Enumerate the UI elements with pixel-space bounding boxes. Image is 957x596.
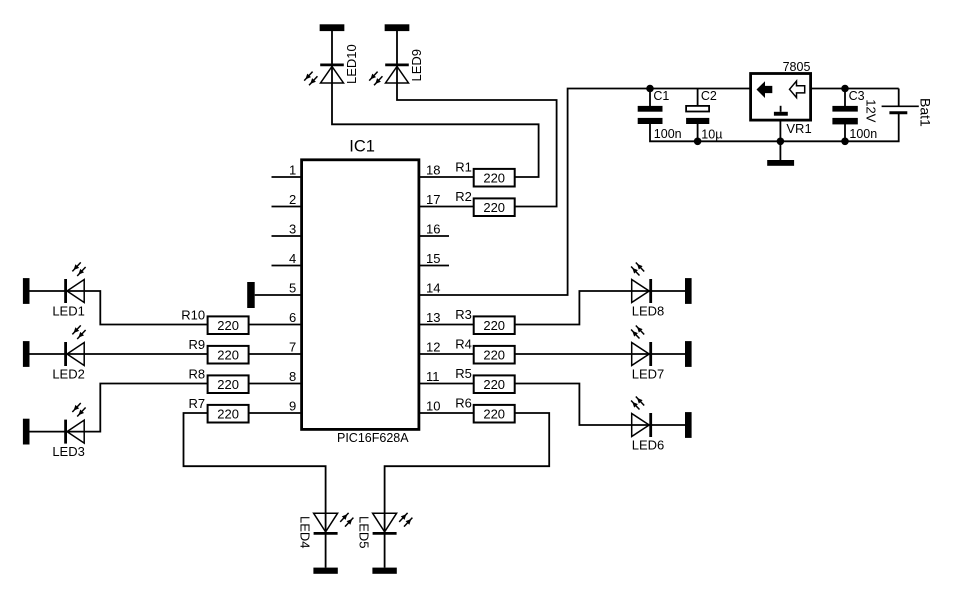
svg-text:R3: R3 (455, 307, 472, 322)
LED LED1 (left-pointing diode) (52, 262, 85, 318)
wire C3 bottom lead (844, 124, 846, 141)
wire pin 7 to resistor (249, 353, 302, 355)
svg-text:14: 14 (426, 281, 440, 296)
svg-text:R10: R10 (181, 308, 205, 323)
svg-text:220: 220 (483, 318, 505, 333)
svg-text:R8: R8 (188, 367, 205, 382)
svg-text:9: 9 (289, 399, 296, 414)
voltage regulator VR1 7805 body (751, 74, 811, 121)
resistor R5 220 (455, 366, 514, 393)
svg-text:13: 13 (426, 310, 440, 325)
svg-text:12: 12 (426, 340, 440, 355)
svg-text:220: 220 (483, 377, 505, 392)
terminal bar LED9 (385, 24, 410, 31)
svg-text:220: 220 (217, 347, 239, 362)
wire pin 10 stub (419, 412, 474, 414)
resistor R1 220 (455, 159, 514, 186)
wire R7 to LED4 (184, 413, 326, 568)
wire pin 9 to resistor (249, 412, 302, 414)
svg-text:2: 2 (289, 192, 296, 207)
wire R6 to LED5 (385, 413, 550, 568)
svg-text:3: 3 (289, 222, 296, 237)
ground symbol (767, 160, 794, 166)
wire pin 2 stub (272, 206, 302, 208)
svg-text:R5: R5 (455, 366, 472, 381)
supply bar terminal at pin 5 (247, 282, 255, 308)
svg-text:PIC16F628A: PIC16F628A (337, 431, 409, 445)
svg-text:LED2: LED2 (52, 367, 85, 382)
svg-text:R7: R7 (188, 396, 205, 411)
IC IC1 PIC16F628A body (302, 160, 419, 430)
wire pin 1 stub (272, 176, 302, 178)
svg-text:220: 220 (217, 406, 239, 421)
wire pin 15 stub (n.c.) (419, 265, 449, 267)
terminal bar LED1 (23, 278, 30, 304)
LED LED3 (left-pointing diode) (52, 403, 85, 459)
terminal bar LED4 (313, 568, 337, 574)
resistor R7 220 (188, 396, 248, 422)
terminal bar LED3 (23, 419, 30, 445)
svg-text:5: 5 (289, 281, 296, 296)
LED LED5 (down-pointing diode) (357, 513, 413, 549)
svg-text:C1: C1 (653, 89, 669, 103)
svg-text:IC1: IC1 (349, 137, 375, 155)
svg-text:VR1: VR1 (786, 121, 811, 136)
wire pin 14 to +5V rail (419, 89, 751, 296)
svg-text:LED1: LED1 (52, 304, 85, 319)
LED LED4 (down-pointing diode) (298, 513, 354, 549)
terminal bar LED7 (685, 341, 692, 367)
resistor R3 220 (455, 307, 514, 334)
terminal bar LED8 (685, 278, 692, 304)
svg-text:100n: 100n (849, 127, 877, 141)
LED LED9 (up-pointing diode) (369, 49, 424, 85)
terminal bar LED5 (372, 568, 396, 574)
wire R9 to LED2 (30, 353, 208, 355)
resistor R6 220 (455, 395, 514, 422)
svg-text:220: 220 (217, 377, 239, 392)
svg-text:LED4: LED4 (298, 516, 313, 549)
svg-text:C2: C2 (701, 89, 717, 103)
svg-text:LED9: LED9 (409, 49, 424, 82)
svg-text:R1: R1 (455, 159, 472, 174)
svg-text:1: 1 (289, 163, 296, 178)
wire bottom rail (650, 113, 899, 142)
svg-text:12V: 12V (864, 99, 879, 122)
wire pin 17 stub (419, 206, 474, 208)
svg-text:18: 18 (426, 163, 440, 178)
svg-text:7805: 7805 (783, 60, 811, 74)
wire R8 to LED3 (30, 384, 208, 432)
svg-text:R6: R6 (455, 395, 472, 410)
svg-text:220: 220 (217, 318, 239, 333)
junction dot C3 at bottom rail (841, 138, 849, 146)
svg-text:6: 6 (289, 310, 296, 325)
wire battery positive drop (898, 89, 900, 106)
svg-text:C3: C3 (849, 89, 865, 103)
terminal bar LED6 (685, 412, 692, 438)
wire pin 18 stub (419, 176, 474, 178)
svg-text:17: 17 (426, 192, 440, 207)
svg-text:220: 220 (483, 200, 505, 215)
svg-text:10µ: 10µ (701, 127, 722, 141)
svg-text:10: 10 (426, 399, 440, 414)
svg-text:R4: R4 (455, 336, 472, 351)
junction dot C1 at +5V rail (646, 85, 654, 93)
svg-text:15: 15 (426, 251, 440, 266)
junction dot VR1 ground at bottom rail (777, 138, 785, 146)
terminal bar LED10 (320, 24, 345, 31)
svg-text:7: 7 (289, 340, 296, 355)
wire C2 bottom lead (697, 124, 699, 141)
svg-text:16: 16 (426, 222, 440, 237)
wire R4 to LED7 (515, 353, 685, 355)
svg-text:R2: R2 (455, 189, 472, 204)
wire pin 13 stub (419, 324, 474, 326)
svg-text:LED3: LED3 (52, 444, 85, 459)
wire C1 top lead (649, 89, 651, 107)
LED LED8 (right-pointing diode) (631, 263, 664, 319)
svg-text:220: 220 (483, 170, 505, 185)
wire pin 3 stub (272, 235, 302, 237)
wire VR1 input rail from battery (811, 88, 899, 90)
svg-text:LED7: LED7 (632, 367, 665, 382)
wire VR1 ground lead (779, 120, 781, 161)
battery Bat1 (882, 106, 919, 112)
LED LED6 (right-pointing diode) (631, 397, 664, 453)
wire pin 16 stub (n.c.) (419, 235, 449, 237)
wire R2 to LED9 (397, 31, 557, 207)
junction dot C3 at input rail (841, 85, 849, 93)
wire R3 to LED8 (515, 291, 685, 325)
wire pin 4 stub (272, 265, 302, 267)
terminal bar LED2 (23, 341, 30, 367)
svg-text:11: 11 (426, 369, 440, 384)
svg-text:220: 220 (483, 406, 505, 421)
junction dot C2 at bottom rail (694, 138, 702, 146)
wire pin 8 to resistor (249, 383, 302, 385)
wire pin 6 to resistor (249, 324, 302, 326)
capacitor C3 100n (832, 106, 857, 125)
wire C3 top lead (844, 89, 846, 107)
capacitor C2 10u electrolytic (686, 106, 709, 124)
LED LED2 (left-pointing diode) (52, 325, 85, 381)
LED LED10 (up-pointing diode) (304, 44, 359, 85)
wire pin 12 stub (419, 353, 474, 355)
LED LED7 (right-pointing diode) (631, 326, 664, 382)
svg-text:100n: 100n (654, 127, 682, 141)
capacitor C1 100n (638, 106, 663, 124)
svg-text:LED10: LED10 (344, 44, 359, 84)
resistor R2 220 (455, 189, 514, 216)
wire C2 leads (697, 89, 699, 107)
resistor R10 220 (181, 308, 248, 334)
svg-text:Bat1: Bat1 (918, 98, 934, 127)
wire R1 to LED10 (332, 31, 539, 177)
svg-text:LED6: LED6 (632, 438, 665, 453)
svg-text:R9: R9 (188, 337, 205, 352)
svg-text:4: 4 (289, 251, 296, 266)
wire R5 to LED6 (515, 384, 685, 426)
wire pin 11 stub (419, 383, 474, 385)
wire R10 to LED1 (30, 291, 208, 325)
svg-text:LED5: LED5 (357, 516, 372, 549)
resistor R8 220 (188, 367, 248, 393)
resistor R9 220 (188, 337, 248, 363)
svg-text:220: 220 (483, 347, 505, 362)
resistor R4 220 (455, 336, 514, 363)
svg-text:8: 8 (289, 369, 296, 384)
wire pin 5 stub (255, 294, 302, 296)
svg-text:LED8: LED8 (632, 304, 665, 319)
